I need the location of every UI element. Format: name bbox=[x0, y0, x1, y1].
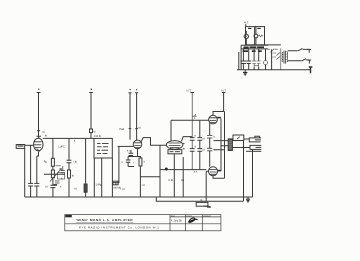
stubs to OPT bbox=[214, 141, 229, 150]
resistor R c bbox=[68, 170, 71, 178]
svg-text:tt ttt ttt: tt ttt ttt bbox=[94, 135, 101, 138]
wire x160 vertical bbox=[159, 145, 161, 197]
svg-text:tt: tt bbox=[214, 134, 216, 138]
resistor R a bbox=[51, 158, 54, 166]
wire strip to switch column bbox=[265, 44, 281, 46]
svg-text:t ttt: t ttt bbox=[114, 183, 118, 186]
wire mains line2 bbox=[288, 59, 309, 61]
TITLE tab bbox=[65, 215, 72, 218]
svg-text:tt: tt bbox=[122, 161, 124, 164]
svg-text:ttt: ttt bbox=[200, 199, 202, 202]
verticals below V4 box bbox=[174, 154, 183, 197]
svg-text:t ttt: t ttt bbox=[74, 161, 78, 164]
svg-text:tt: tt bbox=[195, 134, 197, 138]
wire vertical x36.8 (V1 cathode branch) bbox=[37, 152, 39, 198]
wire grid left into V3 bbox=[118, 145, 134, 147]
wire branch y176.8 bbox=[140, 176, 160, 178]
wire vertical x69 bbox=[68, 138, 70, 197]
PSU ground bbox=[243, 72, 247, 75]
cap column x199.8 bbox=[199, 120, 201, 169]
wire V2 vertical bbox=[89, 93, 93, 139]
svg-text:t tt: t tt bbox=[74, 188, 77, 191]
connector strip row1 bbox=[243, 46, 264, 48]
wire vertical x24.7 bbox=[24, 148, 26, 197]
svg-text:H.T.: H.T. bbox=[187, 88, 192, 92]
terminal E bbox=[309, 67, 313, 73]
svg-text:tt ttt: tt ttt bbox=[169, 178, 174, 182]
bus 1 bbox=[25, 196, 253, 198]
capacitor C p1 bbox=[240, 61, 246, 64]
box B1 valve unit bbox=[94, 138, 112, 158]
bus 2 bbox=[156, 197, 243, 201]
wire vertical x30.6 bbox=[30, 145, 32, 197]
wire V5b bottom loop bbox=[213, 176, 225, 179]
signature bbox=[189, 218, 198, 223]
strip frame bbox=[241, 45, 268, 70]
meter circle bbox=[244, 34, 248, 38]
wire strip to switches bbox=[268, 48, 281, 70]
box below V4 bbox=[168, 150, 182, 154]
wire horizontal y174.3 bbox=[44, 173, 65, 175]
valve V4 sideways bbox=[166, 141, 182, 150]
valve V5a bbox=[209, 115, 218, 124]
transformer T1 core bbox=[284, 51, 286, 64]
svg-text:ttt: ttt bbox=[139, 126, 141, 130]
OPT primary verticals bbox=[221, 112, 225, 179]
svg-text:Checked: Checked bbox=[203, 216, 210, 218]
capacitor C a bbox=[28, 183, 33, 186]
speaker jack 2 bbox=[250, 145, 261, 149]
small component marks cluster bbox=[55, 166, 65, 183]
box on bus2 bbox=[196, 202, 208, 206]
svg-text:Drawn: Drawn bbox=[187, 215, 192, 218]
svg-text:tt: tt bbox=[195, 144, 197, 148]
capacitor C e below V3 bbox=[129, 150, 134, 156]
wire vertical x85.6 bbox=[85, 138, 87, 197]
T1 right winding bbox=[286, 52, 287, 62]
svg-text:Pad.: Pad. bbox=[120, 127, 126, 131]
wire aerial to V1 grid bbox=[25, 144, 34, 146]
svg-text:t tt: t tt bbox=[202, 137, 205, 141]
PSU bottom bus bbox=[237, 69, 310, 71]
valve V1 bbox=[34, 138, 43, 151]
terminal L bbox=[307, 49, 311, 52]
capacitor C b bbox=[34, 183, 39, 186]
node V2 label bbox=[91, 88, 92, 90]
svg-text:ttt: ttt bbox=[72, 174, 74, 177]
anode blob V5a bbox=[217, 117, 221, 119]
output transformer OPT (dark) bbox=[228, 139, 232, 151]
terminal AE input box bbox=[16, 145, 25, 149]
wire HT down bbox=[245, 24, 247, 27]
wire vertical x140.4 + resistor bbox=[139, 157, 141, 198]
svg-text:ttt: ttt bbox=[94, 130, 96, 133]
wire V1 top cap vertical bbox=[37, 93, 41, 137]
svg-text:'MINO' MONO L.A. AMPLIFIER: 'MINO' MONO L.A. AMPLIFIER bbox=[76, 218, 133, 222]
box right of OPT bbox=[233, 135, 244, 141]
svg-text:LuFC: LuFC bbox=[59, 145, 65, 149]
svg-text:t tt: t tt bbox=[202, 148, 205, 152]
svg-text:ttt: ttt bbox=[45, 161, 47, 164]
svg-text:t tt: t tt bbox=[142, 184, 145, 187]
svg-text:tt: tt bbox=[144, 161, 146, 164]
svg-text:1 Mg: 1 Mg bbox=[96, 183, 102, 187]
node V1 top label bbox=[38, 88, 39, 90]
svg-text:H.T: H.T bbox=[222, 88, 227, 92]
wire V3 cathode down bbox=[128, 149, 141, 157]
capacitor C p2 bbox=[246, 61, 251, 64]
PSU verticals bbox=[239, 49, 272, 70]
resistor R d bbox=[84, 184, 87, 192]
wire V5a anode top bbox=[213, 112, 225, 116]
PSU box bbox=[246, 27, 265, 45]
wire V3 anode to V4 bbox=[141, 138, 166, 146]
anode blob V5b bbox=[218, 170, 221, 172]
svg-text:t tt: t tt bbox=[45, 186, 48, 189]
cap column x192.2 (HT) bbox=[192, 93, 197, 170]
capacitor C p3 pair with link bbox=[252, 61, 261, 66]
wire V5b grid down bbox=[206, 171, 208, 201]
table frame bbox=[65, 215, 221, 231]
speaker jack 1 bbox=[249, 136, 261, 142]
wire vertical x52.9 bbox=[52, 138, 54, 197]
resistor R e on V2 line bbox=[90, 129, 93, 133]
svg-text:ttt: ttt bbox=[45, 135, 47, 138]
svg-text:Date: Date bbox=[171, 215, 175, 218]
capacitor C d bbox=[67, 160, 72, 163]
HT2 vertical bbox=[223, 93, 225, 112]
svg-text:PYE RADIO INSTRUMENT Co. L: PYE RADIO INSTRUMENT Co. LONDON W.1 bbox=[79, 226, 160, 230]
wire mains line1 bbox=[288, 48, 309, 51]
ground blob bbox=[246, 199, 250, 202]
wire V4 anode up to HT col bbox=[182, 137, 193, 142]
wire V1 topcap connector bbox=[37, 131, 42, 139]
svg-text:t. ttt: t. ttt bbox=[121, 188, 125, 191]
circle component bbox=[264, 61, 268, 65]
valve V3 top pair bbox=[129, 93, 139, 140]
svg-text:tt: tt bbox=[194, 117, 196, 120]
wire V1 anode line bbox=[43, 137, 94, 139]
terminal N bbox=[308, 60, 312, 63]
svg-text:tt t: tt t bbox=[127, 150, 130, 153]
pot bracket w/ text bbox=[112, 146, 119, 182]
wire V4 outputs bbox=[183, 144, 185, 149]
svg-text:tt tt: tt tt bbox=[194, 171, 198, 174]
wire OPT to jacks bbox=[233, 139, 251, 148]
pot arrow bbox=[50, 169, 62, 182]
connector strip row2 bbox=[243, 50, 262, 52]
svg-text:4. July. 58: 4. July. 58 bbox=[171, 220, 182, 223]
svg-text:H.T.: H.T. bbox=[244, 21, 249, 25]
lamp + resistor bbox=[254, 34, 258, 38]
svg-text:tt t: tt t bbox=[181, 178, 184, 182]
valve V3 bbox=[133, 140, 142, 149]
wire jack downs bbox=[244, 141, 253, 202]
capacitor C c bbox=[50, 185, 55, 187]
wire V4 feed corner bbox=[171, 120, 209, 141]
T1 left winding bbox=[282, 52, 283, 62]
svg-text:t: t bbox=[133, 162, 134, 165]
jack2 bottom rail bbox=[246, 150, 261, 152]
junction line y169.6 bbox=[160, 169, 206, 171]
wire box pins down bbox=[94, 158, 112, 197]
components under V3 bbox=[126, 157, 134, 167]
valve V5b bbox=[209, 167, 218, 176]
svg-text:tt: tt bbox=[74, 140, 76, 143]
resistor R b bbox=[51, 170, 54, 178]
grid column x209.7 between V5a/V5b bbox=[209, 123, 211, 167]
svg-text:tt: tt bbox=[60, 186, 62, 189]
